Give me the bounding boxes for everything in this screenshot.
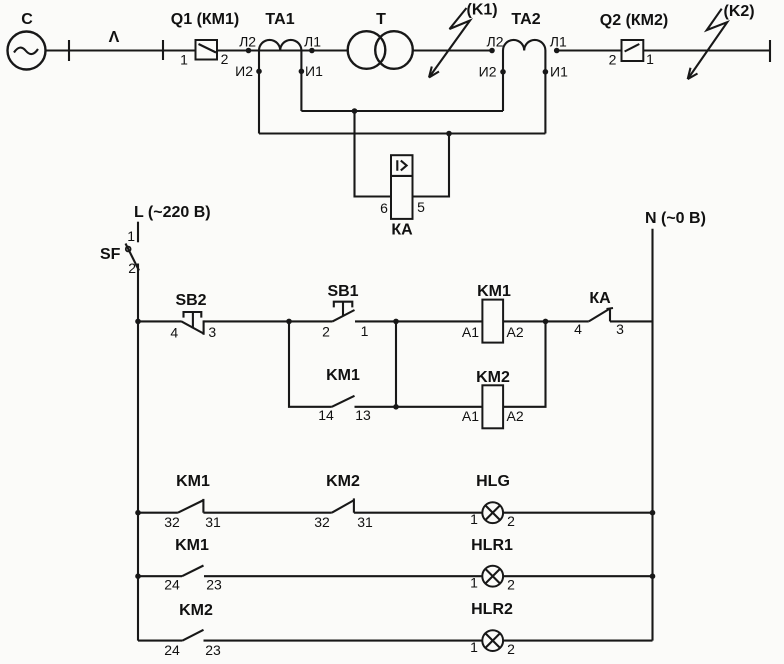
svg-text:1: 1 xyxy=(127,228,135,244)
svg-text:C: C xyxy=(21,11,33,28)
wire xyxy=(413,49,492,51)
wire row1 xyxy=(355,320,482,322)
wire HLR1 row xyxy=(138,575,182,577)
switch SF xyxy=(100,222,139,276)
node row2 junction xyxy=(393,404,399,410)
svg-text:1: 1 xyxy=(470,639,478,655)
svg-text:ТА1: ТА1 xyxy=(265,11,294,28)
node Л2 TA2 xyxy=(489,48,495,54)
svg-text:HLR2: HLR2 xyxy=(471,601,513,618)
svg-text:3: 3 xyxy=(208,324,216,340)
svg-text:23: 23 xyxy=(206,577,222,593)
node row1-left xyxy=(135,319,141,325)
svg-text:N (~0 В): N (~0 В) xyxy=(645,210,706,227)
svg-text:KM2: KM2 xyxy=(326,473,360,490)
wire row1 xyxy=(503,320,589,322)
svg-text:(K2): (K2) xyxy=(724,3,755,20)
transformer T xyxy=(348,11,413,69)
relay contact KA (4-3) xyxy=(574,290,624,337)
node seal branch top xyxy=(286,319,292,325)
svg-text:И1: И1 xyxy=(550,63,568,79)
pushbutton SB1 xyxy=(322,283,369,340)
svg-text:2: 2 xyxy=(322,324,330,340)
wire HLR2 row xyxy=(138,640,183,642)
relay KA xyxy=(380,155,425,238)
svg-text:14: 14 xyxy=(318,407,334,423)
wire row2 right + vertical up xyxy=(503,321,545,406)
wire to KA left xyxy=(355,111,392,197)
svg-text:13: 13 xyxy=(355,407,371,423)
wire TA2 secondary left xyxy=(502,51,504,112)
svg-text:3: 3 xyxy=(616,321,624,337)
fault K1 xyxy=(429,2,498,78)
wire HLG row xyxy=(138,512,178,514)
wire HLG row to N xyxy=(503,512,652,514)
svg-text:2: 2 xyxy=(221,51,229,67)
lamp HLG xyxy=(470,473,515,529)
svg-text:1: 1 xyxy=(361,323,369,339)
lamp HLR2 xyxy=(470,601,515,657)
contactor coil KM2 xyxy=(462,369,524,428)
wire to KA right xyxy=(413,134,450,197)
svg-text:2: 2 xyxy=(507,513,515,529)
current transformer TA2 xyxy=(503,11,545,51)
node Л1 TA2 xyxy=(554,48,560,54)
svg-text:KM2: KM2 xyxy=(476,369,510,386)
node loop outer junction xyxy=(446,131,452,137)
svg-text:L (~220 В): L (~220 В) xyxy=(134,204,211,221)
pushbutton SB2 xyxy=(170,292,216,341)
svg-text:A1: A1 xyxy=(462,324,479,340)
svg-text:KM1: KM1 xyxy=(477,283,511,300)
svg-text:И1: И1 xyxy=(305,63,323,79)
svg-text:KM2: KM2 xyxy=(179,602,213,619)
wire seal branch left vertical xyxy=(289,321,332,406)
svg-text:23: 23 xyxy=(205,642,221,658)
svg-text:Л2: Л2 xyxy=(487,34,504,50)
svg-text:2: 2 xyxy=(507,577,515,593)
auxiliary contact KM1 (32-31) xyxy=(164,473,221,530)
breaker Q1 (KM1) xyxy=(171,11,239,68)
current transformer TA1 xyxy=(259,11,301,51)
node HLG-right xyxy=(650,510,656,516)
svg-text:ТА2: ТА2 xyxy=(511,11,540,28)
wire xyxy=(557,49,622,51)
svg-text:24: 24 xyxy=(164,577,180,593)
svg-text:HLR1: HLR1 xyxy=(471,537,513,554)
svg-text:32: 32 xyxy=(314,514,330,530)
auxiliary contact KM1 (14-13) xyxy=(318,367,371,423)
wire xyxy=(643,49,770,51)
auxiliary contact KM2 (24-23) xyxy=(164,602,221,658)
wire HLG row xyxy=(203,512,331,514)
wire HLR2 row xyxy=(204,640,483,642)
wire KM1-branch vertical xyxy=(395,321,397,406)
svg-text:Λ: Λ xyxy=(109,29,120,46)
wire right rail xyxy=(651,229,653,641)
node HLG-left xyxy=(135,510,141,516)
node HLR1-right xyxy=(650,573,656,579)
AC source C xyxy=(8,11,46,70)
node И2 TA1 xyxy=(256,69,262,75)
wire main line xyxy=(46,49,196,51)
svg-text:И2: И2 xyxy=(479,63,497,79)
svg-text:KM1: KM1 xyxy=(326,367,360,384)
svg-text:И2: И2 xyxy=(235,63,253,79)
breaker Q2 (KM2) xyxy=(600,12,668,68)
svg-text:1: 1 xyxy=(646,51,654,67)
wire row1 to N rail xyxy=(610,320,653,322)
svg-text:SB2: SB2 xyxy=(175,292,206,309)
svg-text:32: 32 xyxy=(164,514,180,530)
svg-text:SB1: SB1 xyxy=(327,283,358,300)
wire CT loop outer xyxy=(259,132,545,134)
svg-text:KM1: KM1 xyxy=(176,473,210,490)
svg-text:4: 4 xyxy=(574,321,582,337)
svg-text:(K1): (K1) xyxy=(467,2,498,19)
svg-text:2: 2 xyxy=(128,260,136,276)
wire HLR1 row xyxy=(204,575,482,577)
busbar tick xyxy=(68,40,70,61)
svg-text:КА: КА xyxy=(391,222,413,239)
wire TA2 secondary right xyxy=(544,51,546,134)
wire TA1 secondary left xyxy=(258,51,260,134)
svg-text:SF: SF xyxy=(100,246,121,263)
svg-text:1: 1 xyxy=(180,52,188,68)
wire left rail xyxy=(137,264,139,641)
svg-text:Л2: Л2 xyxy=(239,33,256,49)
wire HLR1 row to N xyxy=(503,575,652,577)
svg-text:Т: Т xyxy=(376,11,386,28)
svg-text:1: 1 xyxy=(470,575,478,591)
auxiliary contact KM1 (24-23) xyxy=(164,537,222,593)
svg-text:A2: A2 xyxy=(507,324,524,340)
wire HLR2 row to N xyxy=(503,640,652,642)
node И1 TA1 xyxy=(299,69,305,75)
svg-text:KM1: KM1 xyxy=(175,537,209,554)
node И1 TA2 xyxy=(543,69,549,75)
lamp HLR1 xyxy=(470,537,515,593)
wire HLG row xyxy=(354,512,482,514)
node KM1-branch left xyxy=(393,319,399,325)
node Л1 TA1 xyxy=(309,48,315,54)
svg-text:2: 2 xyxy=(609,52,617,68)
svg-text:Л1: Л1 xyxy=(550,34,567,50)
svg-text:Q2 (КМ2): Q2 (КМ2) xyxy=(600,12,668,29)
node KM2-branch right xyxy=(543,319,549,325)
svg-text:A2: A2 xyxy=(507,408,524,424)
svg-text:HLG: HLG xyxy=(476,473,510,490)
svg-text:Л1: Л1 xyxy=(304,33,321,49)
wire xyxy=(217,49,348,51)
wire row2 xyxy=(355,406,483,408)
node Л2 TA1 xyxy=(246,48,252,54)
svg-text:24: 24 xyxy=(164,642,180,658)
node И2 TA2 xyxy=(500,69,506,75)
svg-text:31: 31 xyxy=(205,514,221,530)
svg-text:4: 4 xyxy=(170,325,178,341)
svg-text:Q1 (КМ1): Q1 (КМ1) xyxy=(171,11,239,28)
fault K2 xyxy=(688,3,755,79)
contactor coil KM1 xyxy=(462,283,524,343)
svg-text:2: 2 xyxy=(507,641,515,657)
svg-text:6: 6 xyxy=(380,200,388,216)
svg-text:1: 1 xyxy=(470,511,478,527)
wire CT loop inner xyxy=(301,110,503,112)
node loop inner junction xyxy=(352,108,358,114)
busbar tick xyxy=(162,40,164,60)
auxiliary contact KM2 (32-31) xyxy=(314,473,373,530)
svg-text:КА: КА xyxy=(589,290,611,307)
svg-text:A1: A1 xyxy=(462,408,479,424)
svg-text:31: 31 xyxy=(357,514,373,530)
node HLR1-left xyxy=(135,573,141,579)
wire TA1 secondary right xyxy=(300,51,302,112)
busbar tick end xyxy=(769,40,771,62)
wire row1 xyxy=(204,320,333,322)
wire row1 xyxy=(138,320,181,322)
svg-text:5: 5 xyxy=(417,199,425,215)
